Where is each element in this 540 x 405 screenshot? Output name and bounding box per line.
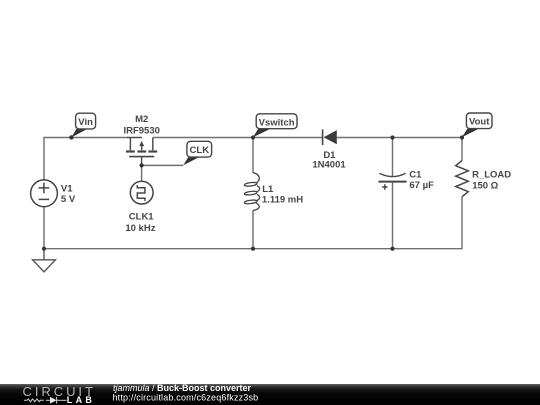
- wire: C1 top lead: [392, 138, 394, 177]
- node Vout: [462, 113, 492, 137]
- svg-text:IRF9530: IRF9530: [123, 126, 159, 137]
- label CLK1 value: [125, 212, 155, 235]
- junction: Vswitch / L1 top: [251, 135, 255, 139]
- svg-text:67 µF: 67 µF: [409, 180, 434, 191]
- label R_LOAD value: [472, 170, 511, 192]
- junction: C1 top: [390, 135, 394, 139]
- svg-text:http://circuitlab.com/c6zeq6fk: http://circuitlab.com/c6zeq6fkzz3sb: [113, 392, 259, 402]
- label L1 value: [262, 184, 303, 205]
- svg-text:LAB: LAB: [67, 395, 95, 405]
- junction: M2 gate / CLK1: [140, 163, 144, 167]
- wire: M2 gate to CLK label: [142, 164, 184, 166]
- svg-text:Vout: Vout: [469, 117, 490, 128]
- ground: [33, 249, 56, 272]
- wire: L1 top lead: [252, 138, 254, 174]
- resistor R_LOAD: [456, 161, 469, 197]
- junction: Vin on top rail: [69, 135, 73, 139]
- wire: Vout corner down to R_LOAD: [461, 138, 463, 161]
- label V1 value: [61, 184, 76, 205]
- transistor M2: [126, 138, 157, 166]
- capacitor C1: [378, 173, 406, 190]
- label M2: [123, 114, 159, 137]
- svg-text:CLK: CLK: [190, 145, 210, 156]
- wire: R_LOAD bottom to bottom rail: [44, 197, 462, 249]
- logo resistor zigzag and diode: [24, 397, 67, 404]
- wire: L1 bottom lead: [252, 210, 254, 248]
- junction: ground / V1 bottom: [42, 247, 46, 251]
- node Vswitch: [253, 114, 297, 138]
- svg-text:R_LOAD: R_LOAD: [472, 170, 511, 181]
- svg-text:CLK1: CLK1: [129, 212, 155, 223]
- wire: top rail from V1 corner to M2 source: [44, 138, 127, 181]
- footer bar: [0, 384, 540, 405]
- junction: L1 bottom: [251, 247, 255, 251]
- wire: V1 bottom to ground node: [43, 207, 45, 249]
- label D1 value: [312, 150, 346, 171]
- svg-text:V1: V1: [61, 184, 73, 195]
- svg-text:C1: C1: [409, 170, 422, 181]
- svg-text:150 Ω: 150 Ω: [472, 181, 498, 192]
- junction: C1 bottom: [390, 247, 394, 251]
- svg-text:Vin: Vin: [78, 117, 93, 128]
- wire: M2 gate down to CLK1: [141, 165, 143, 181]
- voltage source V1: [31, 180, 58, 207]
- node Vin: [69, 113, 95, 139]
- wire: top rail from diode D1 to Vout corner: [337, 137, 462, 139]
- label C1 value: [409, 170, 434, 191]
- svg-text:5 V: 5 V: [61, 194, 76, 205]
- inductor L1: [244, 173, 259, 211]
- svg-text:10 kHz: 10 kHz: [125, 223, 155, 234]
- svg-text:1N4001: 1N4001: [312, 160, 346, 171]
- node CLK: [183, 141, 211, 165]
- svg-text:M2: M2: [135, 114, 148, 125]
- svg-text:1.119 mH: 1.119 mH: [262, 194, 303, 205]
- diode D1: [323, 129, 337, 145]
- wire: C1 bottom lead: [392, 182, 394, 249]
- svg-text:Vswitch: Vswitch: [259, 118, 295, 129]
- wire: top rail from M2 drain to diode D1: [153, 137, 322, 139]
- clock source CLK1: [130, 181, 153, 204]
- junction: Vout / R_LOAD top: [460, 135, 464, 139]
